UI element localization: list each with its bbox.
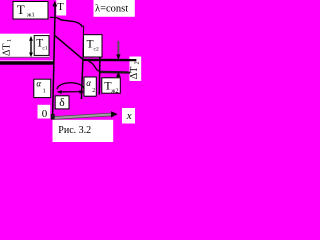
box T_st2	[84, 35, 103, 57]
svg-text:T: T	[57, 2, 64, 13]
svg-text:2: 2	[134, 61, 140, 64]
svg-text:1: 1	[7, 39, 13, 42]
svg-text:δ: δ	[59, 97, 64, 109]
T_zh2 level line	[99, 71, 130, 74]
svg-text:1: 1	[43, 89, 46, 95]
box T_zh2	[102, 78, 121, 93]
delta double arrow (wall thickness)	[59, 91, 83, 93]
T axis (slanted scan)	[53, 5, 56, 117]
helper line T_st2 level	[83, 59, 136, 62]
delta T1 double arrow	[30, 38, 32, 55]
box 0	[38, 105, 51, 119]
svg-text:Рис. 3.2: Рис. 3.2	[58, 125, 91, 136]
T_zh1 temperature line + corner into wall	[57, 18, 82, 27]
svg-text:α: α	[86, 78, 91, 88]
svg-text:ж2: ж2	[110, 89, 118, 95]
light edge above thick wall line	[0, 59, 54, 62]
svg-text:T: T	[87, 39, 94, 51]
box x	[122, 108, 135, 124]
thick wall line (left, T_zh2 level to axis)	[0, 61, 54, 64]
box T_zh1	[13, 2, 48, 20]
svg-text:0: 0	[42, 108, 48, 120]
svg-text:α: α	[36, 78, 41, 88]
svg-text:с2: с2	[94, 47, 99, 53]
box alpha1	[34, 79, 51, 97]
svg-text:x: x	[126, 110, 132, 122]
svg-text:λ=const: λ=const	[95, 4, 128, 15]
vertical line right of wall	[98, 57, 101, 95]
delta T2 arrow marker	[117, 41, 119, 56]
x axis (gray powerpoint arrow, sloped)	[53, 115, 111, 119]
svg-text:ΔT: ΔT	[129, 67, 140, 80]
diagonal wall temperature profile	[55, 35, 83, 59]
box T_st1	[34, 36, 49, 56]
svg-text:2: 2	[92, 88, 95, 94]
svg-text:ΔT: ΔT	[2, 43, 13, 56]
box alpha2	[84, 77, 96, 96]
white band with delta T1	[0, 34, 50, 57]
svg-text:ж1: ж1	[26, 11, 35, 18]
arc over delta arrow	[57, 83, 84, 89]
svg-text:T: T	[17, 2, 25, 17]
box lambda=const	[94, 0, 135, 17]
caption box	[53, 120, 114, 142]
origin junction blob	[51, 114, 55, 120]
box T (axis label)	[56, 0, 66, 16]
box delta	[55, 96, 69, 109]
right wall surface vertical (slanted scan line)	[82, 26, 85, 60]
S-curve boundary layer right	[88, 61, 100, 71]
tick on axis at T_zh1 level	[50, 16, 58, 19]
white box behind delta T2 label	[130, 57, 142, 82]
svg-text:с1: с1	[42, 46, 47, 52]
